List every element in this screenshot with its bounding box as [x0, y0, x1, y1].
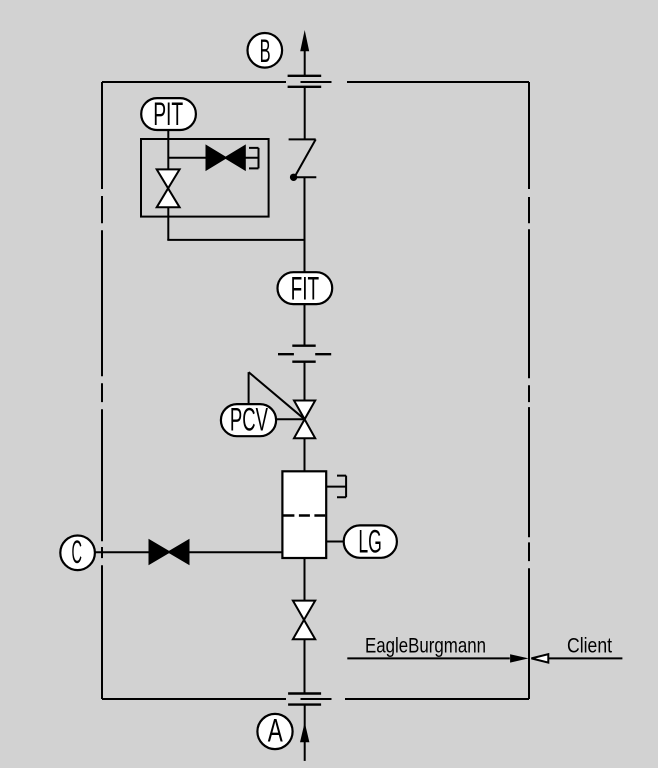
wire vessel to LG	[326, 541, 344, 543]
svg-text:Client: Client	[567, 634, 612, 657]
svg-text:FIT: FIT	[291, 270, 320, 306]
instrument LG bubble	[344, 525, 397, 557]
arrow inlet A	[300, 722, 309, 742]
wire FIT to union	[304, 304, 306, 345]
instrument PCV bubble	[221, 404, 276, 436]
svg-text:PCV: PCV	[230, 402, 268, 438]
wire outlet B vertical	[304, 51, 306, 76]
vent valve Z symbol	[289, 139, 317, 177]
boundary dashed border right	[528, 82, 530, 699]
svg-text:B: B	[260, 33, 271, 69]
arrow outlet B	[300, 30, 309, 51]
drain valve C (closed, black)	[150, 541, 170, 564]
node A circle	[257, 714, 292, 749]
wire to test valve	[168, 157, 206, 159]
test valve (closed, black)	[207, 146, 226, 169]
vessel top nozzle wire	[326, 486, 346, 488]
PIT instrument box	[141, 139, 269, 217]
test valve cap	[245, 148, 259, 169]
union coupling symbol	[278, 346, 331, 362]
svg-text:A: A	[268, 713, 283, 749]
wire PCV bubble to valve	[276, 418, 305, 420]
wire inlet A	[304, 705, 306, 761]
svg-text:LG: LG	[358, 523, 382, 559]
instrument PIT bubble	[141, 98, 196, 130]
vessel / reservoir	[282, 471, 326, 558]
wire PIT branch down	[167, 207, 169, 240]
scope arrow EagleBurgmann side (black)	[510, 654, 528, 662]
wire valve to flange A	[304, 639, 306, 693]
vessel nozzle cap	[337, 476, 346, 498]
wire union to PCV	[304, 363, 306, 401]
wire PIT branch horizontal to main line	[167, 239, 305, 241]
vessel level line	[283, 514, 325, 516]
vent valve dot	[290, 174, 297, 181]
boundary dashed border top	[102, 81, 529, 83]
svg-text:EagleBurgmann: EagleBurgmann	[365, 634, 486, 657]
boundary dashed border left	[101, 82, 103, 699]
wire C to vessel	[95, 551, 283, 553]
node C circle	[60, 536, 95, 571]
connection flange B	[288, 76, 322, 87]
wire vessel to bottom valve	[304, 558, 306, 601]
PCV actuator lines	[249, 372, 305, 419]
wire PIT to valve	[167, 130, 169, 169]
wire PCV to vessel	[304, 438, 306, 471]
boundary dashed border bottom	[102, 698, 529, 700]
svg-text:C: C	[71, 534, 82, 570]
isolation valve under PIT (open)	[157, 169, 180, 188]
bottom isolation valve (open)	[293, 601, 315, 620]
node B circle	[247, 33, 282, 68]
scope arrow Client side (open)	[531, 654, 548, 662]
scope split line	[347, 657, 622, 659]
control valve PCV body	[294, 401, 315, 420]
wire B flange to vent	[304, 88, 306, 139]
connection flange A	[288, 694, 321, 705]
svg-text:PIT: PIT	[153, 96, 183, 132]
instrument FIT bubble	[278, 272, 333, 304]
wire vent to FIT	[304, 177, 306, 271]
